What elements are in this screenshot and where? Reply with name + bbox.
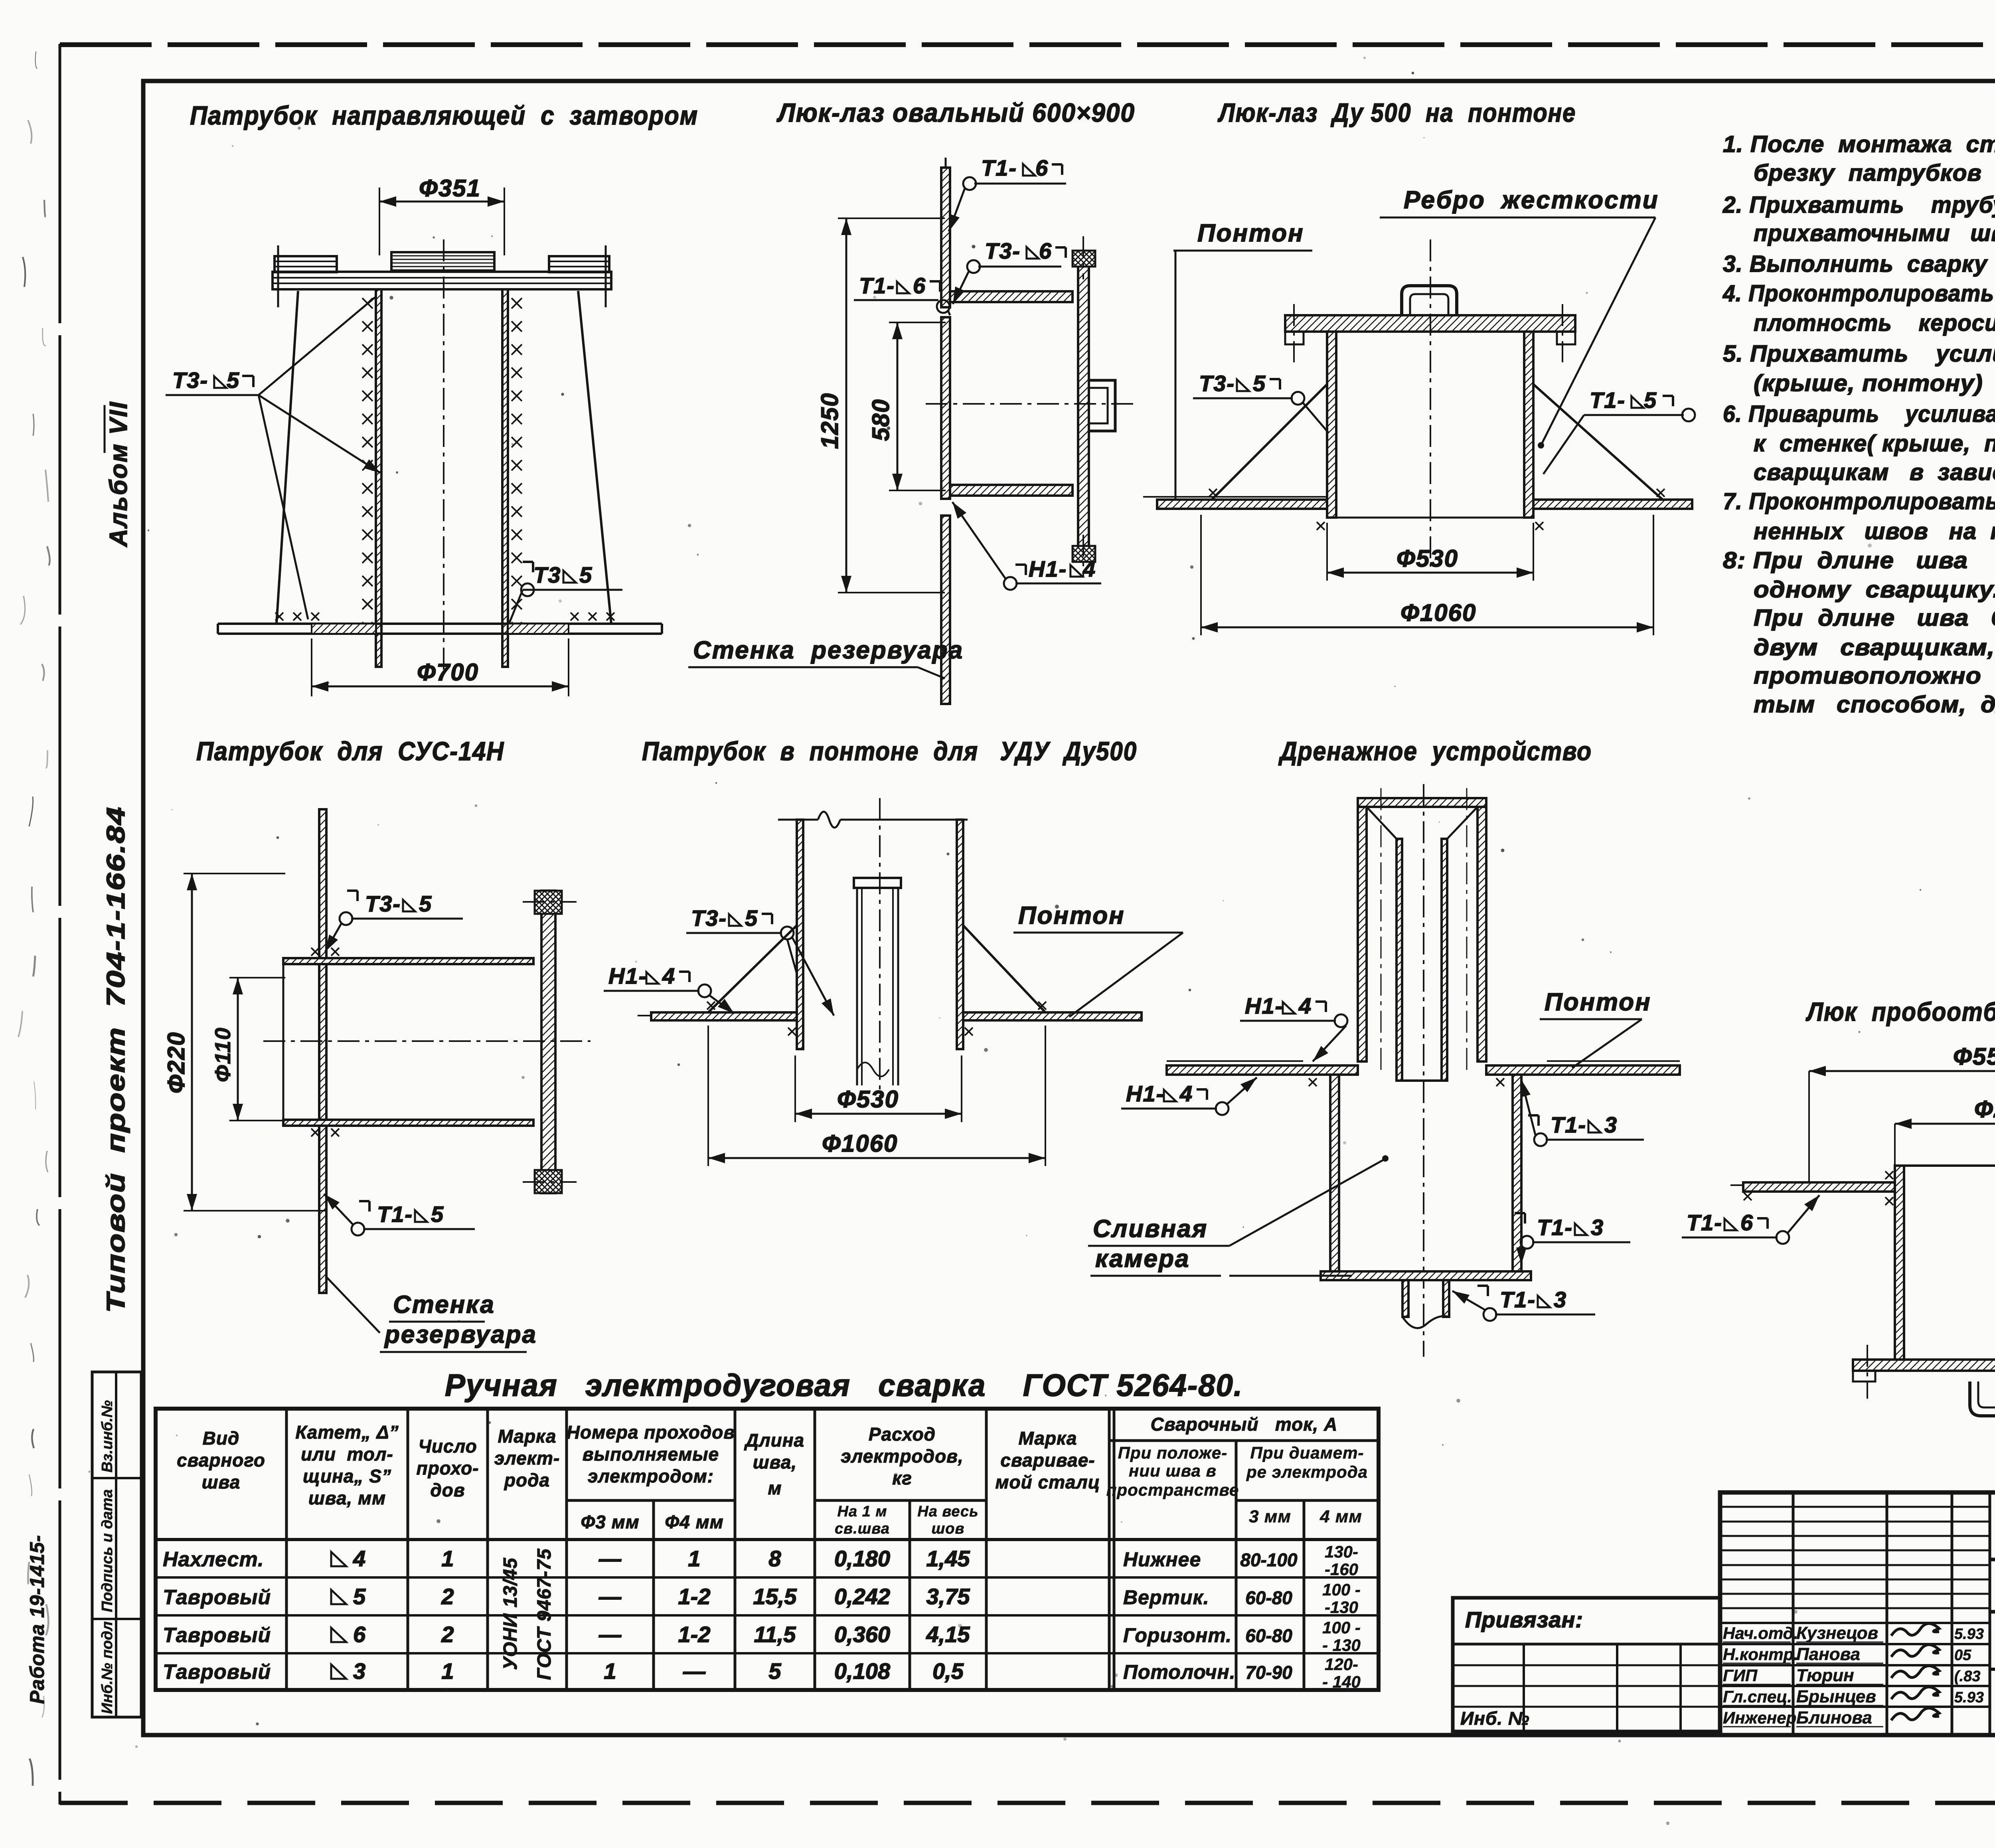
svg-text:УОНИ 13/45: УОНИ 13/45	[500, 1557, 521, 1670]
svg-text:60-80: 60-80	[1245, 1625, 1292, 1646]
svg-text:4,15: 4,15	[926, 1622, 970, 1647]
svg-text:дов: дов	[430, 1480, 465, 1500]
svg-text:6: 6	[1035, 155, 1049, 180]
svg-text:1: 1	[441, 1658, 454, 1684]
svg-text:электродом:: электродом:	[588, 1466, 714, 1486]
svg-text:3: 3	[1554, 1287, 1566, 1312]
svg-text:При положе-: При положе-	[1118, 1443, 1227, 1462]
svg-text:Т1-: Т1-	[1687, 1210, 1722, 1235]
svg-text:брезку патрубков и люков.: брезку патрубков и люков.	[1754, 160, 1995, 186]
svg-text:0,242: 0,242	[834, 1584, 890, 1609]
svg-text:Привязан:: Привязан:	[1465, 1607, 1583, 1632]
svg-text:Патрубок в понтоне для УД: Патрубок в понтоне для УДУ Ду500	[642, 736, 1137, 766]
svg-text:Ф273: Ф273	[1974, 1096, 1995, 1123]
svg-text:Ф3 мм: Ф3 мм	[581, 1512, 639, 1532]
svg-text:элект-: элект-	[494, 1448, 560, 1469]
svg-text:5. Прихватить усиливающий: 5. Прихватить усиливающий лист к трубе и…	[1723, 341, 1995, 367]
svg-text:5: 5	[353, 1584, 366, 1609]
svg-text:6: 6	[913, 273, 926, 298]
svg-text:Ф351: Ф351	[419, 175, 481, 202]
svg-text:пространстве: пространстве	[1106, 1480, 1239, 1499]
svg-text:Патрубок для СУС-14Н: Патрубок для СУС-14Н	[196, 736, 504, 766]
svg-text:5: 5	[419, 891, 432, 916]
svg-text:Ф220: Ф220	[163, 1032, 190, 1093]
svg-text:2. Прихватить трубу к ст: 2. Прихватить трубу к стенке (крыше, пон…	[1722, 192, 1995, 218]
svg-text:Патрубок направляющей с зат: Патрубок направляющей с затвором	[190, 101, 698, 130]
svg-text:Т1-: Т1-	[1537, 1215, 1573, 1240]
svg-text:Тюрин: Тюрин	[1796, 1666, 1854, 1685]
svg-text:электродов,: электродов,	[841, 1446, 963, 1467]
svg-text:ненных швов на плотность: ненных швов на плотность обмыливанием.	[1754, 518, 1995, 544]
svg-text:0,180: 0,180	[834, 1546, 890, 1571]
svg-text:Ф110: Ф110	[210, 1027, 235, 1082]
svg-text:Ф550: Ф550	[1953, 1043, 1995, 1070]
svg-text:м: м	[768, 1478, 782, 1498]
svg-text:Альбом VII: Альбом VII	[105, 401, 132, 547]
svg-text:рода: рода	[504, 1470, 550, 1490]
svg-text:- 130: - 130	[1322, 1636, 1361, 1654]
svg-text:камера: камера	[1095, 1245, 1190, 1273]
svg-text:Горизонт.: Горизонт.	[1123, 1624, 1232, 1646]
svg-text:6. Приварить усиливающий: 6. Приварить усиливающий лист к трубе, а…	[1723, 401, 1995, 427]
svg-text:Марка: Марка	[498, 1426, 556, 1447]
svg-text:5.93: 5.93	[1954, 1689, 1984, 1706]
svg-text:1: 1	[604, 1658, 616, 1684]
svg-text:4. Проконтролировать 100%: 4. Проконтролировать 100% выполненного ш…	[1722, 281, 1995, 306]
svg-text:—: —	[598, 1546, 622, 1571]
svg-text:-130: -130	[1325, 1598, 1358, 1617]
svg-text:5: 5	[579, 562, 592, 587]
svg-text:Т1-: Т1-	[1551, 1112, 1586, 1137]
svg-text:нии шва в: нии шва в	[1129, 1461, 1217, 1480]
svg-text:Понтон: Понтон	[1545, 988, 1651, 1016]
svg-text:Вид: Вид	[203, 1428, 240, 1449]
svg-text:4: 4	[353, 1546, 365, 1571]
svg-text:мой сталц: мой сталц	[996, 1472, 1100, 1492]
svg-text:Ручная электродуговая свар: Ручная электродуговая сварка ГОСТ 5264-8…	[445, 1368, 1243, 1403]
svg-text:5: 5	[431, 1202, 444, 1227]
svg-text:Инженер: Инженер	[1723, 1708, 1796, 1727]
svg-text:5: 5	[1253, 371, 1266, 396]
svg-text:4: 4	[1082, 556, 1096, 581]
svg-text:3: 3	[353, 1658, 365, 1684]
svg-text:Т1-: Т1-	[377, 1202, 413, 1227]
svg-text:Ребро жесткости: Ребро жесткости	[1404, 186, 1659, 214]
svg-text:Стенка: Стенка	[393, 1291, 495, 1318]
svg-text:1: 1	[441, 1546, 454, 1571]
svg-text:Понтон: Понтон	[1018, 902, 1125, 929]
svg-text:(.83: (.83	[1954, 1668, 1980, 1685]
svg-text:Типовой проект 704-1-166.84: Типовой проект 704-1-166.84	[101, 806, 130, 1313]
svg-text:Н.контр.: Н.контр.	[1723, 1645, 1798, 1664]
svg-text:Т3-: Т3-	[985, 238, 1021, 263]
svg-text:1250: 1250	[816, 393, 843, 449]
svg-text:Т3-: Т3-	[691, 905, 727, 931]
svg-text:5: 5	[745, 905, 758, 931]
svg-text:Н1-: Н1-	[608, 963, 647, 988]
svg-text:Вз.инб.№: Вз.инб.№	[99, 1400, 116, 1472]
svg-text:5: 5	[768, 1658, 781, 1684]
svg-text:4: 4	[1298, 993, 1311, 1018]
svg-text:2: 2	[441, 1622, 454, 1647]
svg-text:—: —	[598, 1584, 622, 1609]
svg-text:Инб.№ подл: Инб.№ подл	[99, 1621, 116, 1714]
svg-text:Тавровый: Тавровый	[163, 1660, 271, 1684]
svg-text:Т3-: Т3-	[365, 891, 401, 916]
svg-text:прохо-: прохо-	[416, 1458, 479, 1478]
svg-text:—: —	[683, 1658, 706, 1684]
svg-text:Понтон: Понтон	[1197, 219, 1304, 247]
svg-text:сваривае-: сваривае-	[1000, 1450, 1095, 1470]
svg-text:Инб. №: Инб. №	[1460, 1708, 1530, 1729]
svg-text:Люк-лаз овальный 600×900: Люк-лаз овальный 600×900	[776, 98, 1135, 127]
svg-text:3 мм: 3 мм	[1249, 1507, 1291, 1526]
svg-text:Дренажное устройство: Дренажное устройство	[1278, 736, 1592, 766]
svg-text:шва,: шва,	[753, 1452, 797, 1472]
svg-text:плотность керосином.: плотность керосином.	[1754, 310, 1995, 336]
svg-text:выполняемые: выполняемые	[583, 1444, 719, 1465]
svg-text:тым способом, длина ступе: тым способом, длина ступени 200-250 мм.	[1754, 692, 1995, 717]
svg-text:Гл.спец.: Гл.спец.	[1723, 1687, 1792, 1706]
svg-text:Люк-лаз Ду 500 на понтоне: Люк-лаз Ду 500 на понтоне	[1217, 98, 1576, 127]
svg-text:0,108: 0,108	[834, 1658, 891, 1684]
svg-text:3,75: 3,75	[926, 1584, 970, 1609]
svg-text:8: 8	[768, 1546, 781, 1571]
svg-text:1-2: 1-2	[678, 1584, 711, 1609]
svg-text:Нахлест.: Нахлест.	[163, 1548, 264, 1571]
svg-text:Т1-: Т1-	[1590, 387, 1626, 413]
svg-text:60-80: 60-80	[1245, 1587, 1292, 1608]
svg-text:Работа 19-1415-: Работа 19-1415-	[26, 1535, 48, 1704]
svg-text:резервуара: резервуара	[384, 1321, 537, 1348]
svg-text:4 мм: 4 мм	[1319, 1507, 1362, 1526]
svg-text:3: 3	[1591, 1215, 1603, 1240]
svg-text:8: При длине шва менее: 8: При длине шва менее 600 мм сварку вып…	[1723, 547, 1995, 573]
svg-text:Стенка резервуара: Стенка резервуара	[693, 636, 964, 664]
svg-text:Ф1060: Ф1060	[822, 1130, 898, 1157]
svg-text:Н1-: Н1-	[1126, 1081, 1164, 1106]
svg-text:Н1-: Н1-	[1029, 556, 1067, 581]
svg-text:или тол-: или тол-	[301, 1444, 393, 1465]
svg-text:шва: шва	[202, 1472, 241, 1492]
svg-text:120-: 120-	[1325, 1655, 1358, 1674]
svg-text:05: 05	[1954, 1647, 1971, 1664]
svg-text:Подпись и дата: Подпись и дата	[99, 1489, 116, 1612]
svg-text:двум сварщикам, расположенн: двум сварщикам, расположенным диаметраль…	[1754, 634, 1995, 660]
svg-text:Сварочный ток, А: Сварочный ток, А	[1151, 1414, 1338, 1435]
svg-text:Ф700: Ф700	[417, 659, 479, 686]
svg-text:Н1-: Н1-	[1245, 993, 1283, 1018]
svg-text:Расход: Расход	[869, 1424, 936, 1445]
svg-text:ре электрода: ре электрода	[1246, 1463, 1368, 1481]
svg-text:Тавровый: Тавровый	[163, 1624, 271, 1647]
svg-text:- 140: - 140	[1322, 1672, 1361, 1691]
svg-text:6: 6	[1039, 238, 1052, 263]
svg-text:Ф4 мм: Ф4 мм	[665, 1512, 723, 1532]
svg-text:Люк пробоотборника Ду 250: Люк пробоотборника Ду 250	[1805, 997, 1995, 1026]
svg-text:-160: -160	[1325, 1560, 1358, 1579]
svg-text:130-: 130-	[1325, 1542, 1358, 1561]
svg-text:Панова: Панова	[1796, 1644, 1860, 1664]
svg-text:к стенке( крыше, понтону). С: к стенке( крыше, понтону). Сварку вести …	[1754, 431, 1995, 457]
svg-text:15,5: 15,5	[753, 1584, 797, 1609]
svg-text:Сливная: Сливная	[1093, 1215, 1208, 1243]
svg-text:прихваточными швами Δ 4-4: прихваточными швами Δ 4-40.	[1754, 220, 1995, 246]
svg-text:сварного: сварного	[177, 1450, 265, 1470]
svg-text:При диамет-: При диамет-	[1250, 1443, 1364, 1462]
svg-text:0,360: 0,360	[834, 1622, 890, 1647]
svg-text:70-90: 70-90	[1245, 1662, 1292, 1683]
svg-text:Т1-: Т1-	[1500, 1287, 1536, 1312]
svg-text:5: 5	[1644, 387, 1657, 413]
svg-text:2: 2	[441, 1584, 454, 1609]
svg-text:Катет„ Δ”: Катет„ Δ”	[295, 1422, 399, 1443]
svg-text:1-2: 1-2	[678, 1622, 711, 1647]
svg-text:Т3: Т3	[533, 562, 561, 587]
svg-text:сварщикам в зависимости: сварщикам в зависимости от длины шва.	[1754, 459, 1995, 485]
svg-text:11,5: 11,5	[754, 1622, 796, 1647]
svg-text:Т3-: Т3-	[1199, 371, 1235, 396]
svg-text:1. После монтажа стенки, кры: 1. После монтажа стенки, крыши и понтона…	[1723, 131, 1995, 157]
svg-text:4: 4	[1179, 1081, 1192, 1106]
svg-text:Тавровый: Тавровый	[163, 1586, 271, 1609]
svg-text:На весь: На весь	[917, 1503, 978, 1520]
svg-text:5: 5	[227, 368, 240, 393]
svg-text:3. Выполнить сварку одному: 3. Выполнить сварку одному или двум свар…	[1723, 251, 1995, 277]
svg-text:100 -: 100 -	[1322, 1580, 1361, 1599]
svg-text:Вертик.: Вертик.	[1123, 1586, 1209, 1609]
svg-text:1: 1	[688, 1546, 700, 1571]
svg-text:5.93: 5.93	[1954, 1626, 1984, 1642]
svg-text:При длине шва более 600: При длине шва более 600 мм сварку выполн…	[1754, 605, 1995, 631]
svg-text:Нижнее: Нижнее	[1123, 1548, 1201, 1571]
svg-text:Т1-: Т1-	[859, 273, 895, 298]
svg-text:6: 6	[1740, 1210, 1753, 1235]
svg-text:одному сварщику.: одному сварщику.	[1754, 577, 1995, 603]
svg-text:7. Проконтролировать 100%: 7. Проконтролировать 100% протяженности …	[1723, 488, 1995, 514]
svg-text:ГИП: ГИП	[1723, 1666, 1758, 1685]
svg-text:(крыше, понтону) швами Δ 4: (крыше, понтону) швами Δ 4-40/200.	[1754, 370, 1995, 396]
svg-text:Марка: Марка	[1018, 1428, 1077, 1449]
svg-text:100 -: 100 -	[1322, 1618, 1361, 1637]
svg-text:Т3-: Т3-	[172, 368, 208, 393]
svg-text:Кузнецов: Кузнецов	[1796, 1623, 1878, 1643]
svg-text:Ф530: Ф530	[837, 1086, 899, 1113]
svg-text:Ф530: Ф530	[1396, 545, 1458, 572]
svg-text:Число: Число	[418, 1436, 477, 1457]
svg-text:1,45: 1,45	[926, 1546, 970, 1571]
svg-text:—: —	[598, 1622, 622, 1647]
svg-text:Т1-: Т1-	[981, 155, 1017, 180]
svg-text:3: 3	[1604, 1112, 1617, 1137]
svg-text:6: 6	[353, 1622, 366, 1647]
svg-text:Номера проходов: Номера проходов	[567, 1422, 735, 1443]
svg-text:Брынцев: Брынцев	[1796, 1687, 1876, 1706]
svg-text:80-100: 80-100	[1240, 1550, 1298, 1570]
svg-text:580: 580	[867, 399, 894, 441]
svg-text:Нач.отд.: Нач.отд.	[1723, 1624, 1798, 1642]
svg-text:щина„ S”: щина„ S”	[303, 1466, 391, 1486]
svg-text:св.шва: св.шва	[835, 1520, 890, 1537]
svg-text:противоположно друг другу,: противоположно друг другу, обратноступен…	[1754, 663, 1995, 689]
svg-text:Длина: Длина	[744, 1430, 804, 1451]
svg-text:кг: кг	[892, 1468, 912, 1488]
svg-text:На 1 м: На 1 м	[838, 1503, 887, 1520]
svg-text:ГОСТ 9467-75: ГОСТ 9467-75	[534, 1548, 555, 1680]
svg-text:0,5: 0,5	[932, 1658, 964, 1684]
svg-text:шва, мм: шва, мм	[308, 1488, 386, 1508]
svg-text:Блинова: Блинова	[1796, 1708, 1872, 1727]
svg-text:шов: шов	[932, 1520, 965, 1537]
svg-text:4: 4	[662, 963, 675, 988]
svg-text:Потолочн.: Потолочн.	[1123, 1661, 1236, 1683]
svg-text:Ф1060: Ф1060	[1400, 599, 1476, 626]
